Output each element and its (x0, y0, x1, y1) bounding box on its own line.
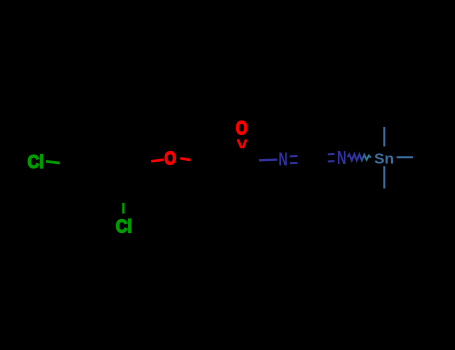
double bond C=N2 blue halves (328, 153, 335, 155)
wire: Sn-C(down) black half + ethyl (384, 189, 400, 216)
bond C-N blue half (259, 158, 277, 161)
wire: Sn-C(right) black half + ethyl (413, 157, 448, 177)
wire: C2-Cl black half (122, 191, 124, 203)
wire: C4-Cl black half (60, 163, 73, 165)
wavy bond N2-Sn (348, 154, 371, 160)
double bond C=O black halves (240, 148, 243, 156)
bond O-CH2 red half (180, 158, 190, 160)
bond Sn-C(up) steel half (383, 127, 385, 146)
bond C2-Cl green half (122, 203, 124, 214)
bond Sn-C(right) steel half (397, 156, 413, 158)
wire: CH2-C(=O) (206, 158, 242, 163)
double bond C=N2 black halves (315, 153, 328, 156)
double bond C=O red halves (238, 139, 242, 148)
svg-text:O: O (164, 149, 176, 169)
svg-text:N: N (337, 148, 346, 168)
wire: C(=O)-N black half (242, 159, 259, 162)
svg-text:Cl: Cl (28, 152, 44, 172)
wire: Sn-C(up) black half + ethyl (384, 98, 404, 127)
svg-text:N: N (279, 149, 288, 169)
benzene ring (carbon skeleton, black on black) (72, 131, 137, 196)
double bond N1=C black halves (298, 155, 309, 158)
svg-text:Sn: Sn (374, 151, 394, 168)
wire: O-CH2 black half (191, 160, 206, 163)
svg-text:O: O (236, 119, 248, 140)
bond C4-Cl green half (46, 161, 60, 163)
wire: C1-O black half (137, 161, 151, 163)
bond Sn-C(down) steel half (383, 166, 385, 188)
bond C1-O red half (151, 160, 163, 162)
double bond N1=C blue halves (290, 155, 298, 157)
svg-text:Cl: Cl (116, 217, 132, 237)
